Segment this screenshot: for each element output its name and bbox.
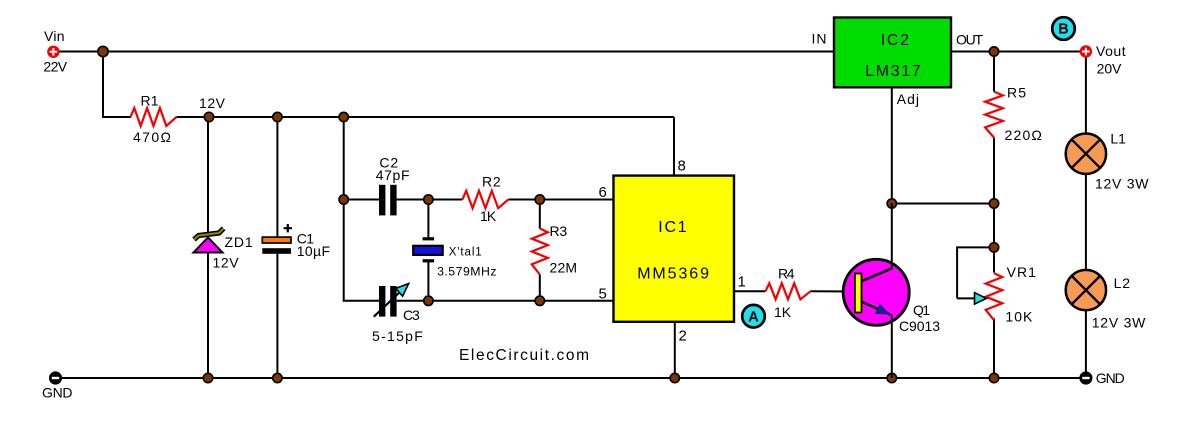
svg-text:GND: GND xyxy=(42,385,73,401)
IC2 LM317 regulator xyxy=(834,18,951,88)
node: VR1 wiper junction xyxy=(989,243,998,252)
svg-text:2: 2 xyxy=(679,328,687,345)
node: R3 top junction xyxy=(535,195,544,204)
wire: R1 row left stub xyxy=(103,116,131,118)
Q1 emitter arrow xyxy=(875,303,890,314)
wire: L1 to L2 xyxy=(1085,174,1087,271)
node B xyxy=(1052,17,1075,40)
svg-text:5: 5 xyxy=(599,286,607,303)
svg-text:IC1: IC1 xyxy=(658,219,686,236)
node: VR1 ground junction xyxy=(989,373,998,382)
svg-text:L2: L2 xyxy=(1114,275,1131,291)
svg-text:12V 3W: 12V 3W xyxy=(1092,315,1146,331)
node: ZD1 ground junction xyxy=(203,373,212,382)
resistor R4 xyxy=(766,283,811,299)
wire: pin1 stub to R4 xyxy=(734,290,766,292)
svg-text:10µF: 10µF xyxy=(297,243,330,259)
node: OUT junction xyxy=(989,47,998,56)
capacitor C2 xyxy=(379,185,385,216)
wire: R3 bottom lead xyxy=(539,275,541,301)
svg-text:12V: 12V xyxy=(213,255,240,271)
node: crystal bottom junction xyxy=(424,296,433,305)
svg-text:Q1: Q1 xyxy=(913,302,930,318)
lamp L2 xyxy=(1066,270,1106,310)
Q1 collector line xyxy=(860,268,892,282)
wire: IC2 OUT to Vout xyxy=(951,51,1080,53)
svg-text:R2: R2 xyxy=(482,174,501,190)
svg-text:220Ω: 220Ω xyxy=(1005,127,1042,143)
wire: L2 to GND xyxy=(1085,310,1087,378)
wire: C2 to R2 segment xyxy=(397,199,463,201)
wire: C3 to pin5 segment xyxy=(397,300,614,302)
svg-text:R4: R4 xyxy=(778,266,795,282)
node: Adj junction xyxy=(887,199,896,208)
node: oscillator branch junction xyxy=(339,112,348,121)
svg-text:Vout: Vout xyxy=(1096,43,1126,59)
svg-text:IN: IN xyxy=(812,31,827,47)
node: R5 bottom junction xyxy=(989,199,998,208)
svg-text:GND: GND xyxy=(1096,370,1125,386)
svg-text:C9013: C9013 xyxy=(899,318,940,334)
resistor R5 xyxy=(985,92,1003,138)
node: Vin junction xyxy=(98,46,108,56)
wire: crystal top lead xyxy=(427,200,429,239)
node: Q1 emitter ground junction xyxy=(887,373,896,382)
node: 12V junction at R1 xyxy=(204,112,213,121)
svg-text:VR1: VR1 xyxy=(1007,264,1037,280)
svg-text:Adj: Adj xyxy=(897,91,919,107)
node: crystal top junction xyxy=(424,195,433,204)
svg-text:12V 3W: 12V 3W xyxy=(1095,176,1149,192)
zener diode ZD1 xyxy=(194,228,224,239)
wire: R3 top lead xyxy=(539,200,541,229)
trimmer capacitor C3 xyxy=(379,286,385,317)
node A xyxy=(742,305,765,328)
potentiometer VR1 xyxy=(986,273,1003,320)
wire: C3 row left segment xyxy=(344,300,379,302)
svg-text:47pF: 47pF xyxy=(376,167,410,183)
wire: IC2 Adj pin down to junction row xyxy=(891,88,893,204)
wire: oscillator branch vertical xyxy=(343,117,345,302)
svg-text:22V: 22V xyxy=(43,59,67,75)
svg-text:R1: R1 xyxy=(141,93,159,109)
wire: crystal bottom lead xyxy=(427,261,429,301)
wire: ZD1 branch upper xyxy=(207,117,209,236)
wire: R4 to Q1 base xyxy=(811,290,857,292)
wire: Vin junction down to R1 row xyxy=(102,52,104,119)
wire: Vin to IC2 IN top rail xyxy=(60,51,835,53)
svg-text:Vin: Vin xyxy=(44,28,65,44)
wire: R5 bottom lead down to wiper junction xyxy=(993,138,995,273)
Q1 emitter line xyxy=(860,301,891,315)
Vin terminal xyxy=(47,46,59,58)
wire: IC1 pin2 to ground xyxy=(674,322,676,378)
svg-text:LM317: LM317 xyxy=(865,63,921,80)
svg-text:22M: 22M xyxy=(550,260,578,276)
ground terminal left xyxy=(49,371,62,384)
wire: R5 top lead xyxy=(993,52,995,92)
wire: C2 row left segment xyxy=(344,199,379,201)
Q1 base bar xyxy=(855,274,862,313)
Vout terminal xyxy=(1080,45,1092,57)
lamp L1 xyxy=(1066,134,1106,174)
wire: ground rail xyxy=(56,377,1087,379)
wire: Adj row to R5/VR1 column xyxy=(892,203,994,205)
crystal X'tal1 xyxy=(423,237,435,240)
wire: VR1 wiper loop top xyxy=(957,246,994,248)
node: C1 top junction xyxy=(273,112,282,121)
resistor R2 xyxy=(462,191,508,208)
svg-text:1: 1 xyxy=(738,274,746,291)
svg-text:8: 8 xyxy=(678,158,686,175)
transistor Q1 C9013 xyxy=(843,259,909,325)
wire: ZD1 branch lower xyxy=(207,251,209,378)
IC IC1 MM5369 xyxy=(614,176,735,322)
node: C1 ground junction xyxy=(273,373,282,382)
svg-text:20V: 20V xyxy=(1097,61,1122,77)
node: C2 row left junction xyxy=(339,195,348,204)
svg-text:IC2: IC2 xyxy=(881,32,909,49)
capacitor C1 xyxy=(262,237,291,243)
wire: VR1 wiper loop vertical xyxy=(956,246,958,298)
node: IC1 pin2 ground junction xyxy=(670,373,679,382)
svg-text:C3: C3 xyxy=(403,307,420,323)
svg-text:A: A xyxy=(748,309,759,325)
svg-text:470Ω: 470Ω xyxy=(133,129,171,145)
svg-text:10K: 10K xyxy=(1005,309,1033,325)
svg-text:3.579MHz: 3.579MHz xyxy=(437,265,496,279)
wire: C1 branch lower xyxy=(276,252,278,378)
wire: R2 to pin6 segment xyxy=(508,199,613,201)
svg-text:12V: 12V xyxy=(199,95,226,111)
ground terminal right xyxy=(1079,371,1092,384)
wire: Vout down to L1 xyxy=(1085,58,1087,135)
resistor R1 xyxy=(131,108,177,126)
svg-text:1K: 1K xyxy=(774,304,792,320)
svg-text:X'tal1: X'tal1 xyxy=(449,247,482,259)
svg-text:R3: R3 xyxy=(550,223,568,239)
svg-text:6: 6 xyxy=(599,184,607,201)
wire: pin8 vertical drop xyxy=(673,117,675,176)
wire: 12V rail from R1 to IC1 pin8 elbow xyxy=(177,116,675,118)
svg-text:1K: 1K xyxy=(480,208,497,224)
resistor R3 xyxy=(532,229,548,275)
wire: VR1 wiper loop to arrow xyxy=(957,297,976,299)
svg-text:ElecCircuit.com: ElecCircuit.com xyxy=(459,347,589,364)
node: R3 bottom junction xyxy=(535,296,544,305)
svg-text:OUT: OUT xyxy=(956,32,983,48)
svg-text:5-15pF: 5-15pF xyxy=(372,328,423,344)
svg-text:B: B xyxy=(1058,22,1068,38)
svg-text:L1: L1 xyxy=(1110,131,1126,147)
wire: C1 branch upper xyxy=(276,117,278,238)
wire: VR1 bottom lead to ground xyxy=(993,318,995,378)
svg-text:R5: R5 xyxy=(1007,85,1026,101)
svg-text:ZD1: ZD1 xyxy=(225,234,253,250)
